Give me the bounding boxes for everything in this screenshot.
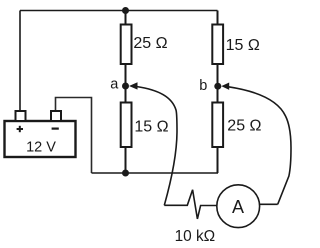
svg-text:10 kΩ: 10 kΩ [175,228,216,245]
battery terminal left [16,111,26,121]
resistor R1 25 ohm (top left) [121,25,132,65]
probe lead curve from ammeter to node b [229,87,292,205]
wire top horizontal [20,10,218,12]
arrowhead at node b [221,83,229,90]
wire left branch upper segment [125,11,127,26]
svg-text:25 Ω: 25 Ω [133,35,167,52]
node a dot [122,83,129,90]
svg-text:a: a [110,77,119,93]
resistor R4 25 ohm (bottom right) [212,103,223,148]
battery minus sign [52,128,59,130]
wire battery negative lead up-right-down [56,98,92,174]
junction dot top [122,7,129,14]
zigzag 10 k ohm wire [164,190,217,219]
battery plus sign [17,126,23,132]
resistor R3 15 ohm (bottom left) [121,103,132,148]
resistor R2 15 ohm (top right) [212,25,223,65]
wire right branch upper segment [217,11,219,26]
svg-text:15 Ω: 15 Ω [134,118,168,135]
wire left branch lower segment [125,147,127,173]
wire bottom horizontal [92,172,219,174]
battery terminal right [51,111,61,121]
svg-text:15 Ω: 15 Ω [226,37,260,54]
wire left branch middle segment [125,64,127,103]
svg-text:A: A [232,197,244,217]
arrowhead at node a [129,82,138,89]
probe lead curve from node a to zigzag [137,87,178,206]
svg-text:25 Ω: 25 Ω [227,117,261,134]
battery 12 V box [5,121,76,157]
wire right branch lower segment [217,147,219,173]
ammeter A circle [217,185,260,228]
junction dot bottom [122,170,129,177]
wire right branch middle segment [217,64,219,103]
svg-text:b: b [199,78,207,94]
wire ammeter right stub [260,203,278,205]
svg-text:12 V: 12 V [26,140,56,156]
wire left vertical (battery + lead) [19,11,21,112]
node b dot [214,83,221,90]
